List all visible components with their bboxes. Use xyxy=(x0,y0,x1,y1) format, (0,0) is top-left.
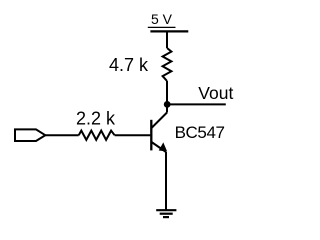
emitter arrowhead xyxy=(160,144,166,150)
wire: R2 to base xyxy=(115,134,151,136)
ground bar 2 xyxy=(160,213,173,215)
wire: R1 to node xyxy=(166,81,168,104)
transistor Q1 emitter diagonal xyxy=(152,142,167,152)
svg-text:2.2 k: 2.2 k xyxy=(76,109,116,129)
wire: Vout xyxy=(167,103,226,105)
ground bar 3 xyxy=(163,216,169,218)
resistor R2 zigzag xyxy=(79,131,115,140)
wire: rail to R1 xyxy=(166,31,168,48)
5V label underline xyxy=(148,26,176,28)
svg-text:Vout: Vout xyxy=(198,83,233,103)
wire: emitter to ground xyxy=(165,152,167,210)
wire: port to R2 xyxy=(45,134,78,136)
input port connector xyxy=(15,129,45,141)
resistor R1 zigzag xyxy=(163,48,172,81)
node dot (Vout junction) xyxy=(164,101,171,108)
wire: node to collector xyxy=(166,104,168,112)
transistor Q1 base bar xyxy=(150,120,152,151)
power rail bar xyxy=(150,30,188,32)
svg-text:5 V: 5 V xyxy=(151,11,173,27)
svg-text:BC547: BC547 xyxy=(175,123,225,142)
ground bar 1 xyxy=(156,209,176,211)
transistor Q1 collector diagonal xyxy=(152,113,168,129)
svg-text:4.7 k: 4.7 k xyxy=(109,55,149,75)
